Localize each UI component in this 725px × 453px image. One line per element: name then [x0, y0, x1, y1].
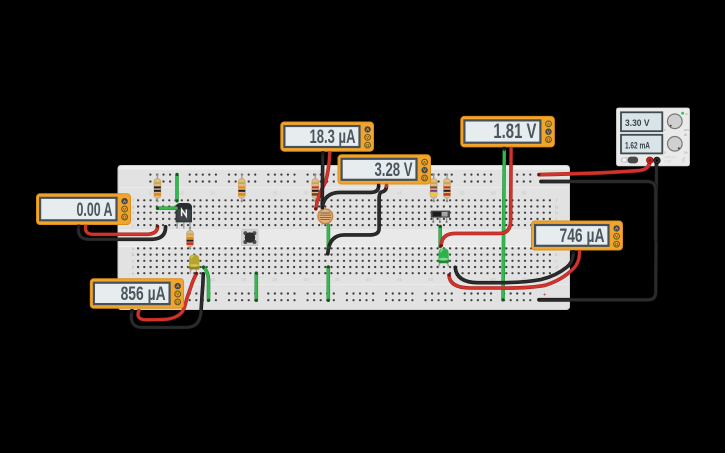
svg-text:40: 40: [366, 277, 372, 282]
svg-text:Ω: Ω: [176, 300, 180, 305]
svg-text:3.30 V: 3.30 V: [625, 118, 650, 128]
svg-text:55: 55: [459, 190, 465, 195]
svg-text:50: 50: [428, 277, 434, 282]
svg-text:0.00 A: 0.00 A: [77, 200, 113, 221]
svg-text:15: 15: [210, 277, 216, 282]
svg-text:A: A: [123, 199, 127, 205]
svg-text:65: 65: [522, 190, 528, 195]
svg-text:1.81 V: 1.81 V: [493, 120, 536, 143]
svg-text:18.3 µA: 18.3 µA: [310, 127, 356, 148]
svg-text:j: j: [132, 223, 134, 228]
svg-text:5: 5: [149, 190, 152, 195]
svg-text:on: on: [685, 112, 689, 116]
svg-text:i: i: [133, 217, 134, 222]
svg-text:Ω: Ω: [423, 176, 427, 181]
svg-text:20: 20: [241, 277, 247, 282]
svg-text:856 µA: 856 µA: [121, 284, 166, 305]
svg-text:A: A: [176, 284, 180, 290]
svg-text:A: A: [366, 127, 370, 133]
svg-text:5A: 5A: [684, 151, 688, 155]
svg-text:Ω: Ω: [547, 137, 551, 142]
svg-text:15: 15: [210, 190, 216, 195]
svg-text:45: 45: [397, 277, 403, 282]
svg-text:10: 10: [179, 190, 185, 195]
svg-text:A: A: [615, 226, 619, 232]
svg-text:Ω: Ω: [123, 215, 127, 220]
svg-text:Ω: Ω: [615, 242, 619, 247]
svg-text:1.62 mA: 1.62 mA: [625, 140, 650, 150]
svg-text:45: 45: [397, 190, 403, 195]
svg-text:25: 25: [272, 277, 278, 282]
svg-text:⊕: ⊕: [684, 133, 687, 137]
svg-text:30: 30: [303, 190, 309, 195]
svg-text:CAD: CAD: [664, 160, 672, 164]
svg-text:Ω: Ω: [366, 143, 370, 148]
svg-text:35: 35: [335, 277, 341, 282]
svg-text:746 µA: 746 µA: [560, 226, 605, 247]
svg-text:30: 30: [303, 277, 309, 282]
svg-text:25: 25: [272, 190, 278, 195]
svg-text:30V: 30V: [684, 128, 689, 132]
svg-text:+: +: [543, 292, 547, 298]
svg-text:3.28 V: 3.28 V: [375, 160, 413, 181]
svg-text:60: 60: [491, 190, 497, 195]
